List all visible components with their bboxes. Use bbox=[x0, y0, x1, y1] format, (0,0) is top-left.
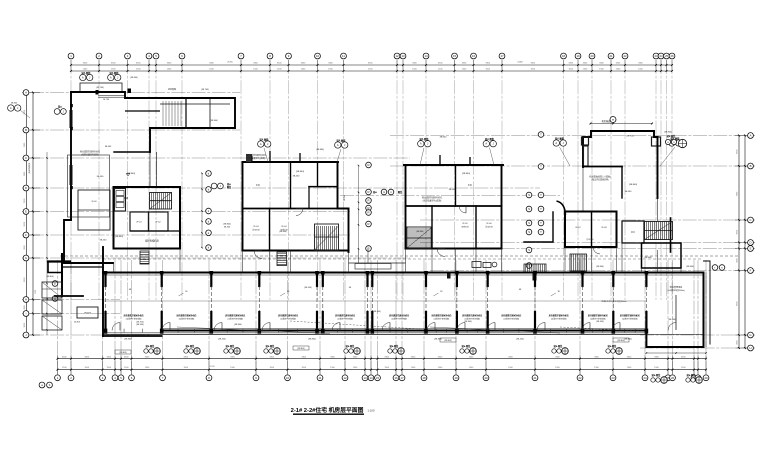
unit C door arcs bbox=[437, 206, 466, 257]
unit A elevator shaft bbox=[115, 189, 126, 212]
unit D vent shaft room bbox=[622, 221, 644, 243]
svg-text:T: T bbox=[540, 221, 542, 225]
svg-text:1500: 1500 bbox=[35, 290, 37, 294]
svg-text:13: 13 bbox=[401, 54, 405, 58]
unit C annotation texts bbox=[422, 173, 472, 202]
svg-text:(38.800): (38.800) bbox=[686, 266, 694, 268]
svg-text:14: 14 bbox=[369, 376, 373, 380]
svg-text:[38.800]: [38.800] bbox=[120, 352, 127, 354]
svg-text:A: A bbox=[82, 76, 84, 80]
svg-text:12: 12 bbox=[343, 376, 347, 380]
svg-text:(39.700): (39.700) bbox=[96, 87, 104, 89]
unit A elevation mark bbox=[126, 173, 130, 176]
svg-text:(38.800): (38.800) bbox=[223, 224, 231, 226]
svg-text:A: A bbox=[260, 142, 262, 146]
svg-text:24: 24 bbox=[659, 54, 663, 58]
svg-text:2F-68: 2F-68 bbox=[601, 227, 607, 229]
unit A top area texts bbox=[96, 87, 218, 122]
svg-text:J: J bbox=[63, 112, 64, 114]
svg-text:17: 17 bbox=[500, 54, 504, 58]
unit C bottom wall bbox=[406, 248, 502, 250]
unit D room divider bbox=[591, 212, 593, 248]
link walkway walls bbox=[349, 249, 406, 269]
unit A left wall bbox=[70, 92, 72, 220]
bottom axis bubbles bbox=[55, 375, 709, 381]
unit B room labels bbox=[252, 226, 288, 232]
svg-text:(38.800): (38.800) bbox=[664, 132, 672, 134]
unit D upper left wall bbox=[583, 131, 591, 167]
svg-text:A: A bbox=[110, 76, 112, 80]
lower detail markers row bbox=[144, 344, 623, 354]
unit D detail marker left bbox=[553, 140, 559, 146]
strip right property unit walls bbox=[646, 273, 703, 348]
svg-text:C: C bbox=[25, 156, 27, 160]
svg-text:24: 24 bbox=[643, 376, 647, 380]
interior bubble pair lower left bbox=[52, 281, 58, 302]
svg-text:26700: 26700 bbox=[227, 62, 233, 64]
svg-text:(38.800): (38.800) bbox=[130, 77, 138, 79]
svg-text:38.450: 38.450 bbox=[449, 189, 456, 191]
svg-text:26: 26 bbox=[671, 376, 675, 380]
svg-text:R: R bbox=[367, 163, 369, 167]
svg-text:A: A bbox=[485, 142, 487, 146]
unit D stair east wall bbox=[670, 218, 672, 252]
svg-text:(38.700): (38.700) bbox=[201, 89, 209, 91]
unit B left wall bbox=[242, 162, 244, 251]
unit B detail marker right bbox=[335, 142, 341, 148]
svg-text:E: E bbox=[25, 210, 27, 214]
svg-text:T: T bbox=[540, 133, 542, 137]
lower right dark label markers bbox=[651, 373, 703, 383]
svg-text:18: 18 bbox=[422, 376, 426, 380]
svg-text:23: 23 bbox=[654, 54, 658, 58]
svg-text:(38.760): (38.760) bbox=[626, 136, 633, 138]
svg-text:22: 22 bbox=[623, 54, 627, 58]
unit C detail marker left bbox=[418, 141, 424, 147]
svg-text:A: A bbox=[25, 91, 27, 95]
unit D wall at terrace bbox=[524, 201, 566, 242]
svg-text:R: R bbox=[367, 222, 369, 226]
left axis bubbles bbox=[23, 90, 29, 338]
unit D lower extension walls bbox=[642, 243, 682, 268]
left mid annotation texts bbox=[35, 276, 54, 294]
svg-text:S: S bbox=[528, 248, 530, 252]
svg-text:[38.800]: [38.800] bbox=[618, 340, 625, 342]
svg-text:23: 23 bbox=[611, 376, 615, 380]
svg-text:[38.800]: [38.800] bbox=[84, 313, 91, 315]
interior bubble pair near unit C bbox=[373, 189, 403, 195]
unit D interior vertical wall bbox=[621, 167, 623, 199]
svg-text:G: G bbox=[25, 256, 27, 260]
svg-text:25: 25 bbox=[665, 54, 669, 58]
svg-text:(38.800): (38.800) bbox=[115, 236, 123, 238]
unit A extension interior walls bbox=[125, 98, 210, 128]
svg-text:(38.800): (38.800) bbox=[124, 339, 132, 341]
unit A room labels bbox=[136, 222, 161, 224]
svg-text:A: A bbox=[10, 106, 12, 110]
svg-text:20: 20 bbox=[590, 54, 594, 58]
strip canopy dashed line bbox=[60, 255, 740, 257]
strip under-wall elevation texts bbox=[124, 339, 632, 341]
unit B top wall bbox=[243, 161, 339, 163]
unit D connector stair hatch bbox=[524, 264, 546, 273]
unit B annotation texts bbox=[246, 153, 346, 201]
unit A extension inner ledge bbox=[160, 103, 230, 105]
unit A west detail marker bbox=[54, 105, 66, 115]
svg-text:H: H bbox=[25, 298, 27, 302]
unit C room labels bbox=[461, 223, 493, 229]
unit A machine room 2F-61 bbox=[130, 212, 149, 231]
svg-text:(38.800): (38.800) bbox=[308, 339, 316, 341]
svg-text:2F-60: 2F-60 bbox=[91, 201, 97, 203]
svg-text:G: G bbox=[749, 333, 751, 337]
strip top wall inner line bbox=[103, 274, 703, 276]
unit A roof parapet notch bbox=[80, 83, 122, 92]
svg-text:A: A bbox=[337, 143, 339, 147]
strip partition walls bbox=[104, 275, 106, 287]
unit B right wall upper bbox=[337, 162, 339, 209]
unit C stair flight hatch bbox=[407, 227, 431, 249]
unit D upper left wall column bbox=[584, 146, 589, 166]
svg-text:2F-61: 2F-61 bbox=[136, 222, 142, 224]
svg-text:13: 13 bbox=[363, 376, 367, 380]
svg-text:A: A bbox=[420, 142, 422, 146]
unit D room labels bbox=[575, 227, 607, 241]
unit D right wall lower thin bbox=[657, 198, 659, 221]
strip interior corridor line bbox=[103, 300, 646, 302]
unit C right wall bbox=[501, 165, 503, 249]
unit D lower small stair hatch bbox=[570, 254, 587, 271]
unit A window lines left wall bbox=[70, 110, 73, 185]
unit D machine rooms outline bbox=[565, 212, 617, 248]
svg-text:J: J bbox=[220, 186, 221, 188]
interior dim line between A and B bbox=[201, 173, 203, 249]
svg-text:(38.450): (38.450) bbox=[516, 339, 524, 341]
unit A annotation texts bbox=[80, 150, 135, 242]
svg-text:A: A bbox=[555, 141, 557, 145]
strip right unit label bbox=[667, 285, 685, 331]
svg-text:(38.800): (38.800) bbox=[644, 257, 652, 259]
unit A lower small stair hatch bbox=[140, 251, 149, 264]
svg-text:r: r bbox=[715, 266, 716, 270]
svg-text:S: S bbox=[528, 207, 530, 211]
svg-text:S: S bbox=[528, 193, 530, 197]
horizontal axis grid lines left bbox=[30, 93, 540, 336]
svg-text:E: E bbox=[750, 247, 752, 251]
svg-text:(38.800): (38.800) bbox=[234, 324, 242, 326]
svg-text:(38.450): (38.450) bbox=[373, 311, 381, 313]
unit D top dimension line bbox=[590, 123, 653, 125]
unit B chimney stub bbox=[246, 154, 252, 162]
unit B right extension wall bbox=[338, 209, 349, 253]
strip right unit sub dimension line bbox=[646, 352, 707, 354]
svg-text:H: H bbox=[749, 346, 751, 350]
drawing title bbox=[291, 406, 375, 414]
marker pair between A and B bbox=[211, 182, 232, 229]
interior bubble column at axis 17 bbox=[526, 192, 532, 268]
svg-text:(38.800): (38.800) bbox=[624, 339, 632, 341]
svg-text:F: F bbox=[25, 233, 27, 237]
left small structure planters bbox=[27, 162, 62, 330]
svg-text:22: 22 bbox=[578, 376, 582, 380]
bottom dimension chain bbox=[57, 355, 707, 375]
strip left planter box bbox=[74, 307, 144, 324]
svg-text:29: 29 bbox=[704, 376, 708, 380]
unit A machine room label text bbox=[124, 196, 160, 243]
right edge building wall bbox=[704, 261, 711, 347]
top right small texts bbox=[201, 89, 424, 233]
svg-text:(38.800): (38.800) bbox=[416, 231, 424, 233]
unit D right side marker pair bbox=[626, 132, 676, 145]
svg-text:(38.800): (38.800) bbox=[596, 266, 604, 268]
svg-text:16.750: 16.750 bbox=[103, 99, 110, 101]
strip bay labels bbox=[124, 291, 640, 320]
svg-text:B: B bbox=[750, 164, 752, 168]
unit C top wall bbox=[404, 164, 503, 166]
svg-text:11: 11 bbox=[342, 54, 345, 58]
svg-text:2-1# 2-2#住宅 机房层平面图: 2-1# 2-2#住宅 机房层平面图 bbox=[291, 406, 364, 414]
unit B room divider bbox=[269, 209, 271, 251]
interior bubble pair lower right bbox=[712, 265, 725, 271]
svg-text:[38.800]: [38.800] bbox=[445, 340, 452, 342]
unit to strip connector stubs bbox=[114, 243, 682, 273]
unit A ext interior hatch bbox=[163, 101, 181, 126]
boxed elevation texts under strip bbox=[115, 338, 629, 354]
svg-text:2F-64: 2F-64 bbox=[281, 226, 287, 228]
svg-text:38.450: 38.450 bbox=[97, 176, 104, 178]
svg-text:(38.800): (38.800) bbox=[316, 149, 324, 151]
unit B bottom wall bbox=[243, 250, 349, 252]
svg-text:38.800: 38.800 bbox=[440, 137, 447, 139]
svg-text:(38.800): (38.800) bbox=[434, 339, 442, 341]
unit D marker leaders bbox=[555, 137, 680, 167]
svg-text:2F-67: 2F-67 bbox=[575, 227, 581, 229]
unit A core to ext link walls bbox=[150, 152, 157, 187]
unit B stair flight hatch bbox=[315, 224, 339, 251]
unit D upper right wall bbox=[654, 131, 658, 198]
unit D door arc bbox=[593, 247, 600, 254]
unit A stair flight hatch bbox=[150, 193, 172, 210]
svg-text:21: 21 bbox=[609, 54, 613, 58]
svg-text:S: S bbox=[528, 221, 530, 225]
strip canopy dashed line 2 bbox=[103, 258, 703, 260]
unit A terrace railing bbox=[68, 155, 110, 217]
svg-text:R: R bbox=[367, 211, 369, 215]
svg-text:19: 19 bbox=[454, 376, 458, 380]
horizontal axis grid line mid bbox=[340, 195, 560, 197]
svg-text:20: 20 bbox=[484, 376, 488, 380]
unit B interior wall vertical 1 bbox=[290, 162, 292, 209]
svg-text:17: 17 bbox=[400, 376, 404, 380]
svg-text:(38.450): (38.450) bbox=[304, 287, 312, 289]
svg-text:2F-63: 2F-63 bbox=[253, 226, 259, 228]
strip storefront glazing lines bbox=[103, 329, 646, 333]
svg-text:21: 21 bbox=[533, 376, 537, 380]
svg-text:38.450: 38.450 bbox=[224, 227, 231, 229]
svg-text:16: 16 bbox=[394, 376, 398, 380]
unit D stair flight hatch bbox=[645, 222, 673, 240]
unit A wall jamb squares bbox=[70, 89, 131, 190]
unit C interior wall vertical 1 bbox=[431, 206, 433, 249]
strip slope diagonal lines bbox=[177, 321, 640, 334]
svg-text:38.800: 38.800 bbox=[11, 103, 18, 105]
svg-text:1:100: 1:100 bbox=[368, 409, 375, 413]
unit A left lower jog wall bbox=[64, 220, 113, 263]
svg-text:F: F bbox=[750, 269, 752, 273]
svg-text:38.450: 38.450 bbox=[625, 191, 632, 193]
strip elevation texts bbox=[129, 287, 676, 326]
svg-text:T: T bbox=[540, 207, 542, 211]
unit B interior wall vertical 2 bbox=[317, 162, 319, 186]
svg-text:(38.800): (38.800) bbox=[668, 319, 676, 321]
unit D upper left corner column bbox=[582, 137, 589, 145]
unit B interior wall vertical 3 bbox=[308, 187, 310, 209]
svg-text:2F-65: 2F-65 bbox=[462, 223, 468, 225]
svg-text:(38.800): (38.800) bbox=[462, 173, 470, 175]
unit B floor wall bbox=[243, 208, 349, 210]
left end dark wall stub bbox=[48, 262, 70, 273]
svg-text:R: R bbox=[367, 190, 369, 194]
strip left end walls bbox=[55, 247, 162, 336]
unit D left wall lower thin bbox=[582, 167, 584, 212]
svg-text:18: 18 bbox=[562, 54, 566, 58]
svg-text:14: 14 bbox=[424, 54, 428, 58]
unit A interior elevation texts bbox=[103, 99, 112, 148]
top detail markers above unit A bbox=[80, 71, 138, 81]
horizontal axis grid lines right bbox=[390, 136, 747, 349]
svg-text:(38.800): (38.800) bbox=[210, 120, 218, 122]
top axis bubbles bbox=[68, 53, 675, 59]
strip storefront door arcs bbox=[112, 323, 620, 331]
unit A top wall bbox=[71, 92, 160, 98]
right annotation texts bbox=[596, 266, 694, 303]
svg-text:B: B bbox=[25, 128, 27, 132]
svg-text:(38.450): (38.450) bbox=[218, 339, 226, 341]
unit B marker texts heavy bbox=[259, 138, 346, 152]
interior bubble column at axis 11 bbox=[366, 162, 372, 251]
svg-text:(38.800): (38.800) bbox=[46, 276, 53, 278]
svg-text:24400: 24400 bbox=[517, 62, 523, 64]
svg-text:C: C bbox=[749, 218, 751, 222]
unit C interior wall vertical 2 bbox=[455, 165, 457, 206]
svg-text:26: 26 bbox=[670, 54, 674, 58]
unit C floor wall bbox=[406, 205, 502, 207]
left edge detail marker bbox=[8, 103, 30, 119]
svg-text:(38.450): (38.450) bbox=[596, 321, 604, 323]
svg-text:T: T bbox=[540, 230, 542, 234]
svg-text:10: 10 bbox=[316, 54, 320, 58]
unit D detail marker right bbox=[669, 140, 675, 146]
svg-text:38.800: 38.800 bbox=[344, 194, 346, 201]
svg-text:16: 16 bbox=[472, 54, 476, 58]
unit C left wall bbox=[405, 165, 407, 249]
svg-text:D: D bbox=[749, 241, 751, 245]
unit D connector stair column blobs bbox=[447, 262, 537, 281]
interior bubble column at axis 18 bbox=[538, 132, 544, 235]
unit C parapet stubs bbox=[440, 155, 470, 165]
svg-text:19: 19 bbox=[576, 54, 580, 58]
svg-text:47.30: 47.30 bbox=[209, 366, 215, 368]
svg-text:T: T bbox=[540, 193, 542, 197]
unit D top wall bbox=[591, 130, 654, 132]
unit B marker leader lines bbox=[264, 148, 341, 162]
unit D big crossed circle marker bbox=[678, 139, 686, 147]
left dimension chain bbox=[22, 92, 40, 336]
unit B interior wall horizontal bbox=[309, 186, 338, 188]
svg-text:36.800: 36.800 bbox=[74, 322, 80, 324]
svg-text:S: S bbox=[528, 230, 530, 234]
svg-text:A: A bbox=[750, 134, 752, 138]
svg-text:10: 10 bbox=[286, 376, 290, 380]
svg-text:15: 15 bbox=[453, 54, 457, 58]
svg-text:D: D bbox=[25, 186, 27, 190]
unit A elevator equipment bbox=[116, 191, 124, 196]
unit A top extension walls bbox=[150, 98, 235, 152]
svg-text:11: 11 bbox=[319, 376, 322, 380]
svg-text:38.450: 38.450 bbox=[293, 176, 300, 178]
svg-text:(38.800): (38.800) bbox=[629, 184, 637, 186]
interior dim line between B and C bbox=[358, 165, 360, 250]
unit C detail marker right bbox=[483, 141, 489, 147]
unit C room divider bbox=[475, 206, 477, 249]
unit B lower small stair hatch bbox=[277, 252, 287, 266]
svg-text:R: R bbox=[367, 199, 369, 203]
top dimension chain bbox=[70, 60, 673, 72]
unit B detail marker left bbox=[258, 141, 264, 147]
bottom-left extra bubble pair bbox=[39, 382, 52, 388]
svg-text:[38.800]: [38.800] bbox=[298, 348, 305, 350]
unit D upper right corner column bbox=[652, 137, 661, 146]
unit C marker texts bbox=[419, 137, 494, 165]
right axis bubbles bbox=[748, 133, 754, 351]
left inner dimension line bbox=[46, 152, 48, 335]
svg-text:(38.800): (38.800) bbox=[279, 231, 287, 233]
vertical axis grid lines bbox=[58, 60, 707, 374]
unit A core outline bbox=[114, 187, 181, 249]
unit D mid wall bbox=[583, 166, 622, 168]
unit A corridor wall bbox=[130, 230, 180, 232]
strip bottom outer line bbox=[103, 333, 646, 335]
unit D top axis bubble bbox=[610, 117, 616, 123]
strip top wall bbox=[103, 271, 703, 273]
svg-text:2F-62: 2F-62 bbox=[155, 222, 161, 224]
unit D annotation texts bbox=[589, 119, 652, 259]
unit A west rooms bbox=[78, 190, 110, 230]
svg-text:(38.800): (38.800) bbox=[296, 171, 304, 173]
svg-text:T: T bbox=[540, 165, 542, 169]
svg-text:(38.450): (38.450) bbox=[136, 324, 144, 326]
unit B parapet stubs bbox=[252, 151, 300, 162]
unit A mid wall bbox=[114, 151, 150, 153]
right dimension chain bbox=[735, 135, 755, 349]
unit B door arcs bbox=[254, 209, 303, 259]
svg-text:15: 15 bbox=[376, 376, 380, 380]
svg-text:12: 12 bbox=[395, 54, 399, 58]
unit A top wall window lines bbox=[98, 96, 125, 98]
unit A machine room 2F-62 bbox=[149, 212, 169, 231]
interior bubble column between A and B bbox=[206, 171, 212, 251]
strip bottom wall bbox=[162, 330, 646, 332]
svg-text:2F-66: 2F-66 bbox=[486, 223, 492, 225]
svg-text:38.450: 38.450 bbox=[105, 146, 112, 148]
svg-text:(38.800): (38.800) bbox=[464, 321, 472, 323]
svg-text:38.450: 38.450 bbox=[100, 240, 107, 242]
